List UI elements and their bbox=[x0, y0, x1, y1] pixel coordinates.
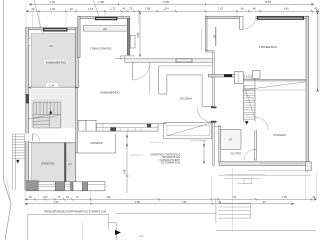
external stair down arrow bbox=[16, 160, 19, 164]
row 2 tick marks bbox=[26, 10, 319, 12]
room label KAΘHMEPINO (left) bbox=[44, 60, 68, 64]
svg-text:ΠΡΟΒΛΕΠΟΜΕΝΟ ΠΕΡΙΓΡΑΜΜΑ ΤΗΣ ΣΤ: ΠΡΟΒΛΕΠΟΜΕΝΟ ΠΕΡΙΓΡΑΜΜΑ ΤΗΣ ΣΤΑΘΜΗΣ 0.00 bbox=[44, 210, 107, 213]
svg-text:.60: .60 bbox=[122, 7, 126, 11]
dark partition bar inside bbox=[64, 143, 66, 182]
door from gonia area to kitchen zone bbox=[132, 62, 134, 80]
appliance boxes left of counter bbox=[79, 120, 86, 131]
svg-text:1.98: 1.98 bbox=[106, 196, 111, 199]
svg-text:ΥΠΝΟΔΩΜ.: ΥΠΝΟΔΩΜ. bbox=[273, 134, 287, 137]
svg-text:2.86: 2.86 bbox=[136, 32, 140, 38]
svg-text:1.10: 1.10 bbox=[231, 196, 236, 199]
leader line second bbox=[94, 0, 100, 18]
window sill lines 2 bbox=[65, 184, 71, 186]
svg-text:1.06: 1.06 bbox=[43, 196, 48, 199]
extension lines from dims down to walls bbox=[26, 5, 319, 92]
pier 4 bbox=[83, 182, 88, 191]
svg-text:ΨΥΓ: ΨΥΓ bbox=[68, 164, 73, 166]
vertical dim near bathroom bbox=[203, 140, 205, 162]
corner column bbox=[306, 162, 312, 171]
hatched floor of top-left room bbox=[31, 34, 75, 88]
svg-text:.66: .66 bbox=[252, 7, 256, 11]
svg-text:ΚΑΤΑΣΚΕΥΗ ΝΕΟΥ: ΚΑΤΑΣΚΕΥΗ ΝΕΟΥ bbox=[160, 159, 181, 162]
vertical dim 1.48 center bbox=[126, 132, 128, 194]
door opening gap in left wall bbox=[25, 134, 29, 141]
pier 3 bbox=[71, 182, 74, 191]
top dimension row 2 bbox=[26, 10, 319, 12]
wall between bath and bedroom bbox=[254, 130, 256, 149]
inner face line gonia bbox=[79, 19, 81, 58]
thin double wall right of kitchen bbox=[213, 52, 215, 107]
kitchen counter band bbox=[96, 123, 167, 125]
svg-text:1.54: 1.54 bbox=[163, 7, 169, 11]
kitchen SE door arc bbox=[198, 108, 212, 122]
window bar middle top wall bbox=[95, 17, 117, 20]
window bar in band bbox=[176, 59, 192, 62]
bath-bedroom door leaf + arc bbox=[254, 149, 256, 160]
svg-text:ΚΑΤΑΡΓΗΣΗ ΥΠΑΡΧΟΝΤΟΣ: ΚΑΤΑΡΓΗΣΗ ΥΠΑΡΧΟΝΤΟΣ bbox=[150, 153, 180, 156]
stair down arrow bbox=[245, 121, 249, 125]
interior dim 2.04 bbox=[46, 83, 58, 87]
svg-text:3.10: 3.10 bbox=[49, 0, 55, 4]
svg-text:3.60: 3.60 bbox=[163, 0, 169, 4]
property boundary second faint line bbox=[7, 178, 11, 204]
window jamb rect on left wall bbox=[29, 39, 32, 46]
door arc at stair landing bbox=[256, 117, 269, 130]
top wall left room bbox=[26, 28, 78, 30]
svg-text:ΣΕ ΣΤΑΘΜΗ -0.45: ΣΕ ΣΤΑΘΜΗ -0.45 bbox=[161, 162, 181, 165]
svg-text:1.48: 1.48 bbox=[123, 169, 127, 175]
svg-text:1.40: 1.40 bbox=[283, 7, 289, 11]
bench ledge band bbox=[83, 26, 127, 32]
door block bbox=[73, 182, 83, 191]
door jamb blocks bbox=[211, 107, 217, 109]
small line below kitchen area bbox=[150, 142, 164, 144]
svg-text:.40: .40 bbox=[69, 7, 73, 11]
lower flight rails bbox=[242, 84, 244, 122]
svg-text:1.57: 1.57 bbox=[88, 7, 94, 11]
leader dash for annotation bbox=[130, 154, 143, 156]
window bar top-left wall bbox=[43, 28, 68, 32]
label D6 bbox=[49, 44, 54, 48]
niche on right wall bbox=[130, 35, 135, 48]
svg-text:.40: .40 bbox=[31, 7, 35, 11]
svg-text:ΠΑΤΩΜΑΤΟΣ ΚΑΙ: ΠΑΤΩΜΑΤΟΣ ΚΑΙ bbox=[162, 156, 181, 159]
svg-text:ΚΑΘΙΣΤΙΚΟ: ΚΑΘΙΣΤΙΚΟ bbox=[41, 162, 54, 165]
svg-text:1.06: 1.06 bbox=[282, 196, 287, 199]
dining entrance door arc bbox=[243, 17, 256, 30]
short diagonal bbox=[242, 90, 255, 100]
dining south wall double line bbox=[243, 78, 306, 80]
vertical dim bar with rotated text bbox=[215, 27, 217, 46]
svg-text:1.73: 1.73 bbox=[110, 7, 116, 11]
vertical dim 2.86 bbox=[139, 14, 141, 56]
right wall of left room bbox=[76, 28, 79, 88]
jamb stub below band bbox=[149, 62, 151, 66]
svg-text:1.00: 1.00 bbox=[50, 7, 56, 11]
right wall gonia sompou bbox=[127, 19, 130, 55]
stair walk line diagonal bbox=[244, 85, 255, 119]
kitchen top separation line bbox=[78, 119, 97, 121]
svg-text:1.07: 1.07 bbox=[218, 7, 224, 11]
svg-text:ΚΑΘΗΜΕΡΙΝΟ: ΚΑΘΗΜΕΡΙΝΟ bbox=[100, 91, 120, 95]
counter ticks bbox=[103, 124, 141, 131]
counter dark segments bbox=[110, 127, 116, 131]
svg-text:.46: .46 bbox=[240, 7, 244, 11]
top dimension row 1 bbox=[29, 3, 314, 5]
svg-text:.75: .75 bbox=[129, 7, 133, 11]
bathroom west wall bbox=[213, 123, 215, 166]
dining entrance door leaf bbox=[239, 17, 243, 30]
kitchen left boundary line bbox=[149, 66, 151, 94]
pier 2 bbox=[55, 182, 65, 191]
kitchen niche outline bbox=[159, 66, 213, 106]
wall jog bbox=[206, 49, 215, 51]
svg-text:2.04: 2.04 bbox=[49, 83, 55, 87]
svg-text:1.98: 1.98 bbox=[98, 0, 104, 4]
top wall middle bbox=[78, 17, 130, 19]
dark bar in that band bbox=[224, 74, 232, 77]
left wall gonia sompou bbox=[78, 17, 80, 58]
svg-text:Δ6: Δ6 bbox=[49, 44, 53, 48]
right exterior wall bbox=[306, 16, 309, 171]
hatched floor lower-left room bbox=[31, 143, 75, 182]
svg-text:ΛΟΥΤΡΟ: ΛΟΥΤΡΟ bbox=[230, 151, 241, 155]
corner pier bbox=[26, 181, 39, 191]
entrance arrow bbox=[115, 230, 121, 235]
SE stair plan below bbox=[215, 198, 217, 224]
svg-text:ΚΑΘΗΜΕΡΙΝΟ: ΚΑΘΗΜΕΡΙΝΟ bbox=[46, 60, 67, 64]
storage south wall bbox=[78, 152, 116, 154]
dining top wall bbox=[206, 16, 309, 18]
svg-text:8.43: 8.43 bbox=[265, 0, 271, 4]
property boundary line left bbox=[4, 0, 11, 240]
svg-text:ΚΟΥΖΙΝΑ: ΚΟΥΖΙΝΑ bbox=[180, 97, 192, 101]
svg-text:Δ5: Δ5 bbox=[103, 27, 107, 31]
upper flight treads bbox=[245, 75, 252, 80]
extension lines bottom bbox=[25, 168, 317, 231]
storage east wall bbox=[115, 134, 117, 153]
svg-text:1.88: 1.88 bbox=[145, 7, 151, 11]
svg-text:1.98: 1.98 bbox=[135, 201, 140, 204]
right boundary lower-left room bbox=[75, 143, 77, 182]
dim row under bottom wall bbox=[219, 174, 311, 176]
beam line under band bbox=[159, 65, 213, 67]
svg-text:ΓΩΝΙΑ ΣΟΜΠΟΥ: ΓΩΝΙΑ ΣΟΜΠΟΥ bbox=[90, 47, 112, 51]
row 2 dim texts bbox=[31, 7, 318, 12]
dining left wall upper bbox=[206, 16, 208, 51]
window sill lines 1 bbox=[38, 184, 55, 186]
door on left wall of lower room bbox=[32, 134, 34, 141]
long diagonal (stair rail above) bbox=[243, 82, 305, 90]
left exterior wall bbox=[26, 28, 29, 191]
top boundary lower-left room bbox=[29, 142, 76, 144]
opening gap bbox=[239, 16, 256, 19]
leader line into top-left window bbox=[34, 0, 44, 38]
inner line bottom wall bbox=[260, 163, 303, 165]
totals dim row bbox=[25, 203, 294, 205]
svg-text:ΑΠΟΘΗΚΗ: ΑΠΟΘΗΚΗ bbox=[90, 142, 103, 145]
small block right bbox=[252, 71, 260, 79]
lower flight treads bbox=[243, 86, 255, 120]
end block bbox=[88, 182, 105, 191]
svg-text:ΤΡΑΠΕΖΑΡΙΑ: ΤΡΑΠΕΖΑΡΙΑ bbox=[259, 45, 277, 49]
svg-text:.45: .45 bbox=[314, 7, 318, 11]
west wall of storage bbox=[76, 88, 78, 153]
shower/WC box bbox=[221, 129, 242, 149]
stair direction arrow bbox=[49, 110, 52, 113]
chimney block bbox=[234, 72, 243, 84]
step detail lines bbox=[225, 174, 265, 176]
long dim row bbox=[25, 198, 317, 200]
svg-text:1.48: 1.48 bbox=[182, 201, 187, 204]
svg-text:ΝΤ: ΝΤ bbox=[229, 139, 233, 142]
bottom long line SE bbox=[216, 230, 316, 232]
right edge vertical dimension bbox=[317, 12, 319, 92]
line below bottom wall bbox=[248, 170, 311, 172]
dark segment in left wall bbox=[26, 94, 29, 104]
wall stub left of bathroom bbox=[190, 139, 206, 141]
window bar dining top bbox=[257, 16, 304, 19]
wall west of WC bbox=[219, 126, 221, 162]
hatch under stair bbox=[31, 89, 75, 100]
svg-text:4.10: 4.10 bbox=[54, 201, 59, 204]
light vertical dim left bbox=[201, 28, 203, 50]
